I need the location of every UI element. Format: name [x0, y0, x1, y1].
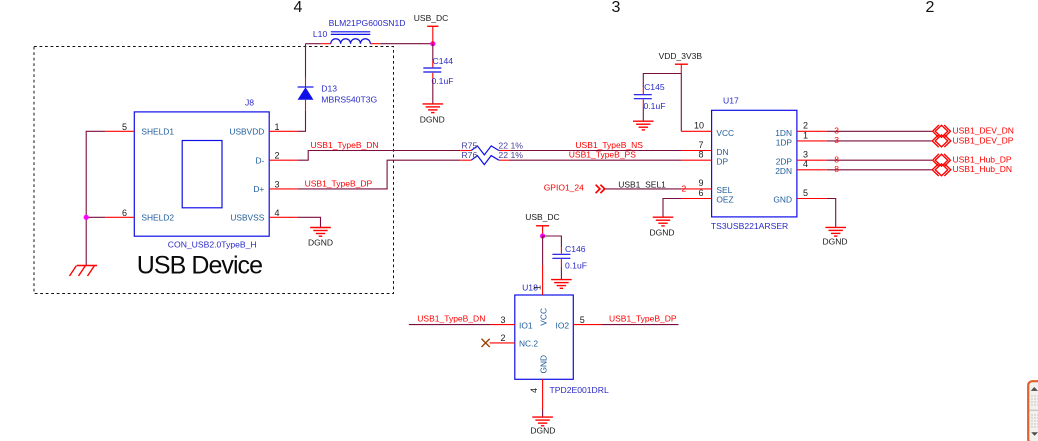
ground DGND U18 — [532, 417, 553, 426]
J8 pin 5 stub — [105, 130, 134, 132]
power symbol VDD_3V3B — [675, 64, 688, 73]
svg-text:DP: DP — [716, 156, 728, 166]
ground C145 — [633, 121, 654, 130]
svg-text:VDD_3V3B: VDD_3V3B — [659, 51, 703, 61]
offpage connector USB1_DEV_DP — [932, 135, 951, 147]
svg-text:GPIO1_24: GPIO1_24 — [544, 183, 584, 193]
svg-text:2: 2 — [803, 121, 808, 131]
svg-text:DGND: DGND — [308, 237, 333, 247]
svg-text:IO1: IO1 — [519, 320, 533, 330]
wire VDD to VCC — [680, 74, 682, 132]
svg-text:C145: C145 — [644, 82, 665, 92]
svg-text:5: 5 — [803, 188, 808, 198]
U17 pin numbers — [694, 121, 808, 198]
U17 pin 7 stub — [682, 150, 712, 152]
wire junction to U18 VCC — [542, 236, 544, 265]
svg-text:8: 8 — [834, 164, 839, 174]
wire R75 to U17 DN — [509, 150, 682, 152]
svg-text:2DP: 2DP — [776, 156, 793, 166]
svg-text:DGND: DGND — [420, 114, 445, 124]
svg-text:USB1_SEL1: USB1_SEL1 — [618, 179, 666, 189]
svg-text:USBVDD: USBVDD — [229, 127, 264, 137]
wire 1DN to offpage — [827, 130, 932, 132]
svg-text:BLM21PG600SN1D: BLM21PG600SN1D — [329, 18, 406, 28]
svg-text:USBVSS: USBVSS — [230, 213, 264, 223]
svg-text:3: 3 — [500, 315, 505, 325]
wire C145 to ground — [642, 107, 644, 121]
IC U17 body — [712, 110, 797, 217]
J8 pin 1 stub — [269, 130, 297, 132]
wire D13 to top — [305, 44, 307, 77]
U17 pin 1 stub — [797, 140, 827, 142]
svg-text:3: 3 — [834, 126, 839, 136]
U17 pin 6 stub — [682, 198, 712, 200]
svg-text:SEL: SEL — [716, 185, 732, 195]
svg-text:L10: L10 — [313, 29, 328, 39]
ground DGND U17 pin5 — [825, 227, 846, 236]
svg-text:GND: GND — [539, 355, 549, 374]
svg-text:1: 1 — [803, 130, 808, 140]
wire pin1 to D13 — [297, 110, 305, 131]
svg-text:USB1_TypeB_DN: USB1_TypeB_DN — [311, 140, 379, 150]
svg-text:2: 2 — [926, 0, 935, 16]
offpage connector USB1_Hub_DN — [932, 164, 951, 176]
svg-text:4: 4 — [529, 388, 539, 393]
U17 pin names — [716, 128, 792, 205]
svg-text:R76: R76 — [461, 150, 477, 160]
svg-text:DGND: DGND — [823, 236, 848, 246]
svg-text:C144: C144 — [433, 56, 454, 66]
wire R76 to U17 DP — [509, 159, 682, 161]
svg-text:10: 10 — [694, 121, 704, 131]
diode D13 — [298, 77, 314, 110]
U18 pin 3 stub — [490, 324, 515, 326]
chassis ground — [70, 266, 98, 277]
svg-text:USB Device: USB Device — [137, 252, 262, 280]
U17 pin 5 stub — [797, 198, 827, 200]
U18 pin 5 stub — [573, 324, 601, 326]
svg-text:2: 2 — [274, 151, 279, 161]
U18 pin 2 stub — [490, 342, 515, 344]
wire D+ to R76 — [297, 160, 460, 189]
svg-text:5: 5 — [580, 315, 585, 325]
svg-text:1DP: 1DP — [776, 137, 793, 147]
svg-text:1DN: 1DN — [775, 128, 792, 138]
svg-text:C146: C146 — [565, 244, 586, 254]
ground DGND C144 — [423, 104, 444, 113]
svg-text:CON_USB2.0TypeB_H: CON_USB2.0TypeB_H — [168, 240, 257, 250]
capacitor C146 — [552, 247, 570, 266]
svg-text:22 1%: 22 1% — [498, 140, 523, 150]
wire IO2 right — [601, 324, 678, 326]
svg-text:0.1uF: 0.1uF — [565, 261, 587, 271]
svg-text:OEZ: OEZ — [716, 194, 733, 204]
wire D- to R75 — [297, 151, 460, 161]
wire pin4 to ground — [297, 217, 320, 227]
svg-text:2: 2 — [500, 333, 505, 343]
svg-text:1: 1 — [533, 285, 543, 290]
svg-text:VCC: VCC — [716, 128, 734, 138]
svg-text:2DN: 2DN — [775, 166, 792, 176]
svg-text:TS3USB221ARSER: TS3USB221ARSER — [711, 221, 788, 231]
wire 1DP to offpage — [827, 140, 932, 142]
wire SEL — [606, 188, 682, 190]
wire 2DP to offpage — [827, 159, 932, 161]
svg-text:22 1%: 22 1% — [498, 150, 523, 160]
svg-text:6: 6 — [122, 208, 127, 218]
svg-text:J8: J8 — [245, 98, 254, 108]
resistor R75 — [460, 146, 509, 155]
connector J8 body — [134, 112, 269, 236]
power symbol USB_DC — [427, 26, 438, 43]
wire junction down to C144 — [432, 44, 434, 61]
capacitor C144 — [423, 61, 441, 80]
U17 pin 8 stub — [682, 159, 712, 161]
svg-text:USB1_TypeB_NS: USB1_TypeB_NS — [575, 140, 643, 150]
port chevron GPIO1_24 — [596, 185, 605, 193]
svg-text:SHELD1: SHELD1 — [141, 127, 174, 137]
svg-text:3: 3 — [803, 149, 808, 159]
svg-text:2: 2 — [682, 184, 687, 194]
svg-text:USB1_TypeB_DP: USB1_TypeB_DP — [305, 178, 373, 188]
J8 pin 2 stub — [269, 159, 297, 161]
ground C146 — [551, 280, 572, 289]
svg-text:DGND: DGND — [650, 227, 675, 237]
svg-text:USB1_Hub_DN: USB1_Hub_DN — [953, 164, 1013, 174]
svg-text:GND: GND — [773, 194, 792, 204]
wire C144 to ground — [432, 80, 434, 104]
scroll widget bottom right — [1028, 381, 1038, 441]
svg-text:D-: D- — [255, 155, 264, 165]
wire GND pin5 to ground — [827, 199, 836, 228]
J8 pin names — [141, 127, 264, 223]
U17 pin 10 stub — [681, 130, 711, 132]
svg-text:4: 4 — [294, 0, 303, 16]
ground DGND OEZ — [653, 217, 674, 226]
capacitor C145 — [634, 88, 652, 107]
svg-text:4: 4 — [274, 208, 279, 218]
wire IO1 left — [409, 324, 490, 326]
power symbol USB_DC (lower) — [536, 226, 549, 236]
svg-text:USB1_TypeB_DN: USB1_TypeB_DN — [417, 314, 485, 324]
svg-text:USB1_DEV_DP: USB1_DEV_DP — [953, 135, 1014, 145]
wire shield left — [86, 131, 105, 265]
svg-text:USB_DC: USB_DC — [525, 212, 559, 222]
svg-text:USB1_DEV_DN: USB1_DEV_DN — [953, 126, 1014, 136]
junction shield node — [84, 215, 89, 220]
svg-text:0.1uF: 0.1uF — [432, 76, 454, 86]
U17 pin 2 stub — [797, 130, 827, 132]
svg-text:D+: D+ — [253, 184, 264, 194]
wire shield2 — [86, 216, 105, 218]
wire L10 to junction — [380, 43, 433, 45]
svg-text:3: 3 — [612, 0, 621, 16]
svg-text:VCC: VCC — [539, 308, 549, 326]
svg-text:9: 9 — [698, 178, 703, 188]
J8 pin 6 stub — [105, 216, 134, 218]
svg-text:8: 8 — [834, 155, 839, 165]
svg-text:USB1_TypeB_PS: USB1_TypeB_PS — [569, 150, 636, 160]
wire 2DN to offpage — [827, 169, 932, 171]
svg-text:USB1_Hub_DP: USB1_Hub_DP — [953, 155, 1012, 165]
resistor R76 — [460, 156, 509, 165]
U17 pin 4 stub — [797, 169, 827, 171]
svg-text:IO2: IO2 — [556, 320, 570, 330]
ground DGND J8 pin4 — [310, 228, 331, 237]
inductor L10 — [321, 32, 381, 44]
wire VDD branch to C145 — [643, 74, 681, 88]
U18 pin 1 stub (VCC top) — [542, 265, 544, 295]
svg-text:0.1uF: 0.1uF — [644, 101, 666, 111]
svg-text:U17: U17 — [723, 96, 739, 106]
svg-text:D13: D13 — [321, 83, 337, 93]
svg-text:TPD2E001DRL: TPD2E001DRL — [550, 385, 609, 395]
svg-text:MBRS540T3G: MBRS540T3G — [321, 94, 377, 104]
offpage connector USB1_DEV_DN — [933, 125, 951, 138]
U17 pin 9 stub — [682, 188, 712, 190]
junction USB_DC lower node — [540, 233, 545, 238]
junction USB_DC node — [430, 41, 435, 46]
svg-text:7: 7 — [698, 140, 703, 150]
IC U18 body — [515, 295, 574, 379]
J8 pin 4 stub — [269, 216, 297, 218]
U18 pin 4 stub (GND bottom) — [542, 379, 544, 409]
wire C146 to ground — [560, 266, 562, 279]
offpage connector USB1_Hub_DP — [933, 154, 951, 167]
svg-text:SHELD2: SHELD2 — [141, 213, 174, 223]
wire U18 gnd — [542, 410, 544, 417]
J8 pin numbers — [122, 122, 280, 218]
svg-text:DGND: DGND — [530, 425, 555, 435]
wire OEZ to ground — [663, 199, 682, 217]
svg-text:1: 1 — [274, 122, 279, 132]
svg-text:5: 5 — [122, 122, 127, 132]
USB Device dashed outline box — [34, 47, 394, 294]
svg-text:NC.2: NC.2 — [519, 339, 538, 349]
svg-text:3: 3 — [834, 135, 839, 145]
svg-text:USB_DC: USB_DC — [414, 13, 448, 23]
svg-text:3: 3 — [274, 179, 279, 189]
J8 pin 3 stub — [269, 188, 297, 190]
no-connect X pin 2 — [482, 339, 490, 347]
U17 pin 3 stub — [797, 159, 827, 161]
wire top node to L10 — [306, 43, 321, 45]
wire branch to C146 — [543, 236, 562, 247]
svg-text:USB1_TypeB_DP: USB1_TypeB_DP — [609, 314, 677, 324]
svg-text:R75: R75 — [461, 140, 477, 150]
